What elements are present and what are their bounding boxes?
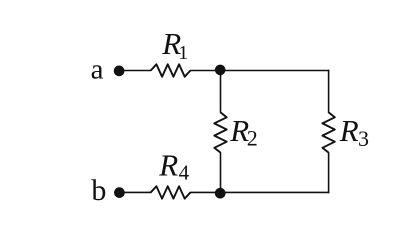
wire: a to R1 <box>119 70 151 72</box>
resistor R4 <box>151 186 191 198</box>
wire: R4 to b <box>119 191 151 193</box>
wire: bottom node to R4 <box>190 191 220 193</box>
svg-text:3: 3 <box>358 126 369 151</box>
wire: top rail node to corner <box>220 70 329 72</box>
resistor R1 <box>151 64 191 76</box>
terminal a dot <box>114 66 125 77</box>
wire: bottom rail corner to node <box>220 191 329 193</box>
svg-text:1: 1 <box>178 42 188 64</box>
wire: top node down to R2 <box>220 71 222 113</box>
resistor R2 <box>214 112 226 152</box>
wire: R2 down to bottom node <box>220 152 222 193</box>
resistor R3 <box>322 112 334 152</box>
svg-text:2: 2 <box>247 126 258 151</box>
svg-text:R: R <box>339 113 359 148</box>
node: bottom junction dot <box>215 188 226 199</box>
svg-text:b: b <box>91 174 106 207</box>
wire: right branch vertical top <box>328 70 330 113</box>
terminal b dot <box>114 187 125 198</box>
wire: right branch vertical bottom <box>328 152 330 193</box>
svg-text:a: a <box>91 53 104 85</box>
node: top junction dot <box>215 65 226 76</box>
svg-text:R: R <box>158 148 178 183</box>
wire: R1 to top node <box>190 70 220 72</box>
svg-text:4: 4 <box>179 161 190 185</box>
